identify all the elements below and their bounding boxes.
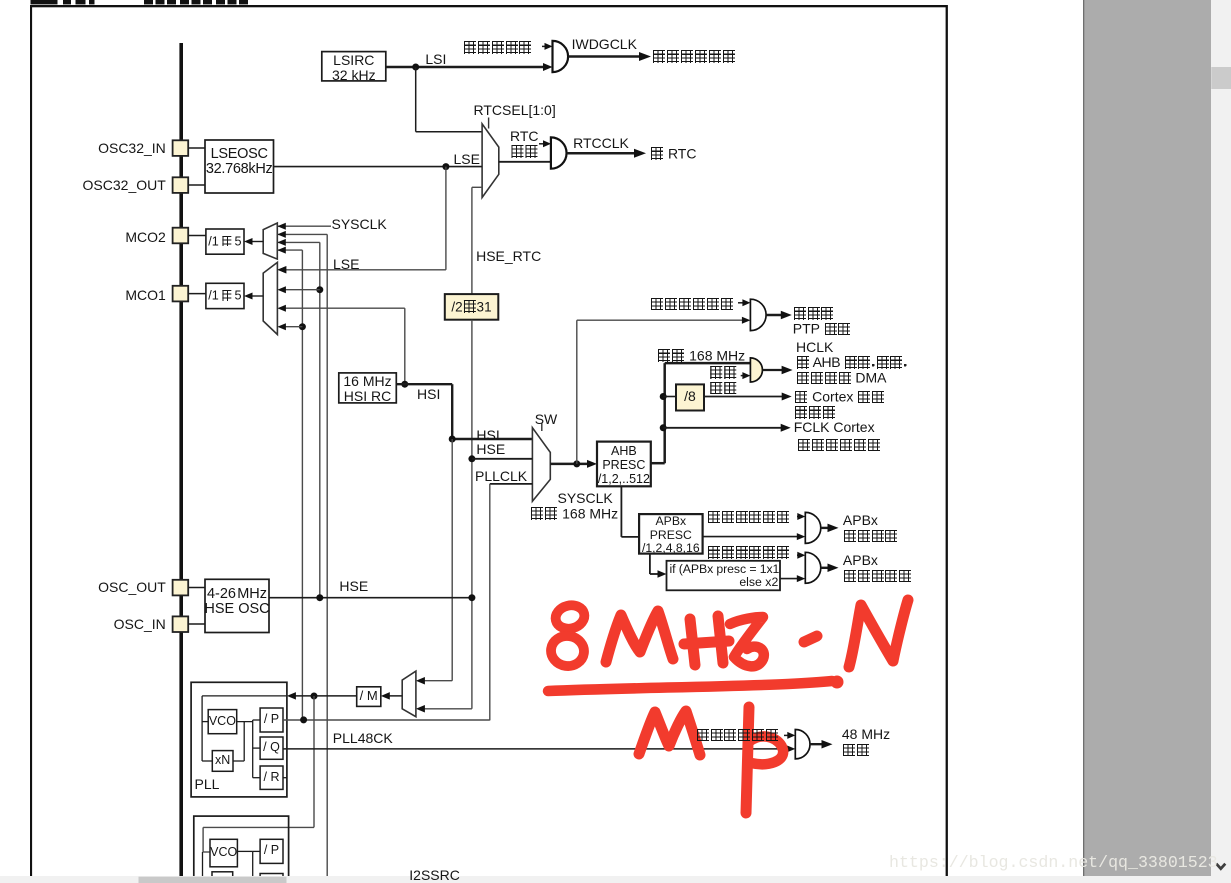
mux RTCSEL xyxy=(482,124,499,198)
title fragment 图 13. 时钟树 (cut off at top) xyxy=(31,0,58,4)
wire MCO1 mux output arrow xyxy=(248,295,263,297)
wire HSI bold to SW mux xyxy=(396,383,452,385)
PLLI2S divider wires xyxy=(237,850,252,852)
/Q box (PLLI2S, cut off) xyxy=(260,874,283,883)
wire HSE_RTC into mux xyxy=(471,187,473,294)
wire HCLK output xyxy=(763,369,787,371)
mux PLL source xyxy=(402,671,416,717)
pin OSC_IN xyxy=(173,616,189,632)
if box (APBx presc) xyxy=(667,561,781,591)
PLLI2S outer box xyxy=(194,816,289,883)
wire SYSCLK output of SW mux xyxy=(550,463,593,466)
red annotation: dot xyxy=(804,636,817,642)
wire OSC32_IN pin stub xyxy=(188,147,205,149)
label 外设时钟使能 (APBx timer) + arrow xyxy=(797,554,801,556)
wire MCO2 mux output arrow xyxy=(248,241,263,243)
mux MCO1 xyxy=(263,262,277,334)
label 外设时钟使能 (ethernet) + arrow xyxy=(738,302,744,304)
AND gate 48 MHz xyxy=(795,730,810,759)
AND gate RTC xyxy=(551,137,567,168)
node /M to PLLI2S junction xyxy=(311,693,318,700)
SW select tick xyxy=(541,423,543,431)
wire /M output down to PLLI2S xyxy=(313,696,315,827)
PLL internal VCO output + feedback wires xyxy=(237,721,253,723)
wire PLLCLK into SW mux xyxy=(490,483,533,485)
wire FCLK xyxy=(660,424,667,431)
divider box /1到5 (MCO2) xyxy=(206,229,244,254)
wire RTCCLK output xyxy=(567,152,635,155)
wire 48MHz output xyxy=(810,743,827,745)
wire ethernet PTP output xyxy=(766,314,786,317)
node HSI junction at box output xyxy=(401,381,408,388)
PLL internal input wire xyxy=(202,695,286,697)
scrollbar down arrow xyxy=(1216,864,1225,869)
red annotation: M denominator xyxy=(639,711,700,755)
16 MHz HSI RC box xyxy=(339,373,397,403)
wire HSE vertical (to PLL mux) xyxy=(471,320,473,709)
node LSI junction xyxy=(412,64,419,71)
wire HSE into SW mux xyxy=(468,455,475,462)
wire APBx PRESC down to if box xyxy=(649,554,651,574)
wire APBx PRESC to gate xyxy=(703,536,801,538)
label 时钟使能 + arrow xyxy=(741,375,746,377)
LSEOSC 32.768kHz box xyxy=(205,140,274,193)
red annotation: p stroke xyxy=(746,707,749,813)
red annotation: H xyxy=(690,619,695,665)
wire into /8 xyxy=(660,393,667,400)
pin OSC_OUT xyxy=(173,580,189,596)
AND gate IWDG xyxy=(553,41,569,72)
divider box /8 xyxy=(676,384,704,410)
wire AHB PRESC down to APBx PRESC xyxy=(620,486,622,537)
wire RTCSEL mux output xyxy=(499,161,551,163)
wire HSE tap to MCO1 xyxy=(316,286,323,293)
label 外设时钟使能 (48MHz) + arrow xyxy=(784,734,790,736)
pin OSC32_IN xyxy=(173,140,189,156)
left I/O bus line xyxy=(179,43,183,876)
mux SW (system clock switch) xyxy=(532,428,550,502)
node HSE/HSE_RTC junction xyxy=(468,594,475,601)
wire OSC_IN pin stub xyxy=(188,623,205,625)
VCO box (PLL) xyxy=(208,710,237,734)
xN box (PLL) xyxy=(212,751,233,772)
wire PLL track to MCO2 xyxy=(277,249,302,251)
/P box (PLLI2S) xyxy=(260,839,283,863)
/R box (PLL) xyxy=(260,766,283,789)
mux MCO2 xyxy=(263,223,277,259)
wire APBx timer output xyxy=(821,567,833,569)
wire HSE track to MCO2 xyxy=(277,241,320,243)
AND gate HCLK (cream fill) xyxy=(750,358,762,382)
wire HSI down to PLL mux xyxy=(451,439,453,681)
right scrollbar thumb xyxy=(1211,67,1231,89)
wire MCO1 pin stub xyxy=(188,293,206,295)
wire PLLCLK from /P up to SW mux xyxy=(283,719,490,721)
label RTC 使能 + arrow xyxy=(539,143,546,145)
red annotation: z xyxy=(730,617,764,666)
wire PLLI2S track to MCO2 xyxy=(277,233,327,235)
wire mux output to /M xyxy=(386,695,402,697)
wire OSC32_OUT pin stub xyxy=(188,184,205,186)
diagram frame border xyxy=(30,5,948,7)
pin MCO2 xyxy=(173,228,189,244)
red annotation: 8 xyxy=(553,602,587,631)
wire OSC_OUT pin stub xyxy=(188,587,205,589)
/Q box (PLL) xyxy=(260,737,283,759)
RTCSEL select tick xyxy=(488,118,490,129)
wire HSE from OSC box xyxy=(269,597,472,599)
wire /8 output to cortex timer xyxy=(704,396,787,398)
AHB PRESC box xyxy=(597,442,651,487)
xN box (PLLI2S, cut off) xyxy=(212,872,233,883)
pdf viewer gray background panel xyxy=(1083,0,1211,878)
/P box (PLL) xyxy=(260,708,283,732)
wire if box output to timer gate xyxy=(780,578,801,580)
label 外设时钟使能 (APBx peripheral) + arrow xyxy=(797,516,801,518)
wire APBx peripheral output xyxy=(821,527,833,529)
wire IWDGCLK output xyxy=(568,55,640,58)
wire LSI from LSIRC to IWDG gate xyxy=(386,66,549,69)
wire PLL48CK from /Q to 48MHz gate xyxy=(283,748,791,750)
node HSE/MCO track junction xyxy=(316,594,323,601)
divider box /1到5 (MCO1) xyxy=(206,283,244,308)
divider box /M xyxy=(357,687,381,707)
APBx PRESC box xyxy=(639,514,703,554)
wire SYSCLK input MCO2 xyxy=(277,225,331,227)
wire /R stub xyxy=(283,777,287,779)
wire SYSCLK up to ethernet gate xyxy=(576,320,578,464)
right scrollbar track xyxy=(1211,0,1231,883)
LSIRC 32 kHz oscillator box xyxy=(322,52,386,81)
node LSE junction xyxy=(442,163,449,170)
wire LSE down to MCO1 mux xyxy=(445,167,447,270)
bottom horizontal scrollbar thumb xyxy=(139,877,287,883)
wire AHB output up to HCLK gate xyxy=(651,462,665,465)
red annotation: N xyxy=(849,600,908,667)
VCO box (PLLI2S) xyxy=(210,839,237,867)
pin MCO1 xyxy=(173,286,189,302)
wire LSE from LSEOSC to mux xyxy=(274,166,483,168)
wire LSI down to RTCSEL mux xyxy=(415,67,417,132)
wire /M output to PLL xyxy=(292,695,357,697)
divider box /2到31 xyxy=(445,294,499,320)
pin OSC32_OUT xyxy=(173,177,189,193)
4-26 MHz HSE OSC box xyxy=(205,579,269,632)
AND gate ethernet PTP xyxy=(750,299,766,330)
PLLI2S internal wires xyxy=(202,852,204,880)
wire HSI to MCO1 xyxy=(280,307,405,309)
AND gate APBx timer clock xyxy=(805,552,821,583)
red annotation: fraction bar xyxy=(548,681,832,691)
AND gate APBx peripheral clock xyxy=(805,512,821,543)
red annotation: M xyxy=(606,611,673,662)
PLL outer box xyxy=(191,682,287,797)
wire MCO2 pin stub xyxy=(188,235,206,237)
label 看门狗使能 + arrow xyxy=(542,45,546,47)
wire PLL tap to MCO1 xyxy=(299,323,306,330)
bottom horizontal scrollbar track xyxy=(0,876,1231,883)
